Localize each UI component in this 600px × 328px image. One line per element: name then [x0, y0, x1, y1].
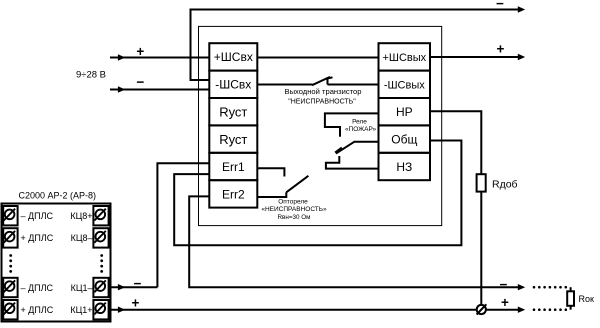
svg-text:Rуст: Rуст [219, 132, 247, 147]
svg-text:Rок: Rок [579, 294, 595, 304]
svg-text:-ШСвх: -ШСвх [215, 78, 251, 92]
svg-text:Rвн=30 Ом: Rвн=30 Ом [277, 214, 310, 221]
svg-text:КЦ1–: КЦ1– [71, 283, 93, 293]
svg-text:Общ: Общ [391, 133, 417, 147]
svg-text:−: − [136, 75, 144, 90]
svg-text:+ШСвых: +ШСвых [382, 52, 426, 64]
svg-text:Оптореле: Оптореле [278, 198, 308, 205]
svg-text:КЦ8+: КЦ8+ [70, 211, 92, 221]
svg-text:КЦ8–: КЦ8– [71, 233, 93, 243]
svg-text:+ШСвх: +ШСвх [214, 50, 253, 64]
svg-text:– ДПЛС: – ДПЛС [21, 211, 54, 221]
svg-text:«ПОЖАР»: «ПОЖАР» [345, 126, 377, 133]
svg-text:+: + [501, 295, 509, 310]
svg-text:Rдоб: Rдоб [492, 179, 518, 191]
svg-text:−: − [496, 0, 504, 11]
svg-text:+ ДПЛС: + ДПЛС [21, 305, 54, 315]
svg-text:– ДПЛС: – ДПЛС [21, 283, 54, 293]
svg-text:НЗ: НЗ [396, 160, 412, 174]
svg-text:Реле: Реле [352, 119, 367, 126]
svg-text:Err1: Err1 [222, 160, 245, 174]
svg-text:Err2: Err2 [222, 187, 245, 201]
svg-text:КЦ1+: КЦ1+ [70, 305, 92, 315]
svg-text:+: + [497, 42, 505, 57]
svg-text:+ ДПЛС: + ДПЛС [21, 233, 54, 243]
svg-text:«НЕИСПРАВНОСТЬ»: «НЕИСПРАВНОСТЬ» [261, 206, 327, 213]
svg-text:"НЕИСПРАВНОСТЬ": "НЕИСПРАВНОСТЬ" [288, 99, 356, 106]
svg-text:9÷28 В: 9÷28 В [76, 69, 106, 80]
svg-text:Rуст: Rуст [219, 105, 247, 120]
svg-text:+: + [136, 44, 144, 59]
svg-text:НР: НР [396, 105, 413, 119]
svg-text:Выходной транзистор: Выходной транзистор [285, 87, 362, 96]
svg-text:-ШСвых: -ШСвых [384, 79, 425, 91]
svg-text:С2000 АР-2 (АР-8): С2000 АР-2 (АР-8) [19, 191, 97, 201]
svg-text:−: − [500, 277, 508, 292]
svg-text:+: + [132, 296, 140, 311]
svg-text:−: − [134, 276, 142, 291]
